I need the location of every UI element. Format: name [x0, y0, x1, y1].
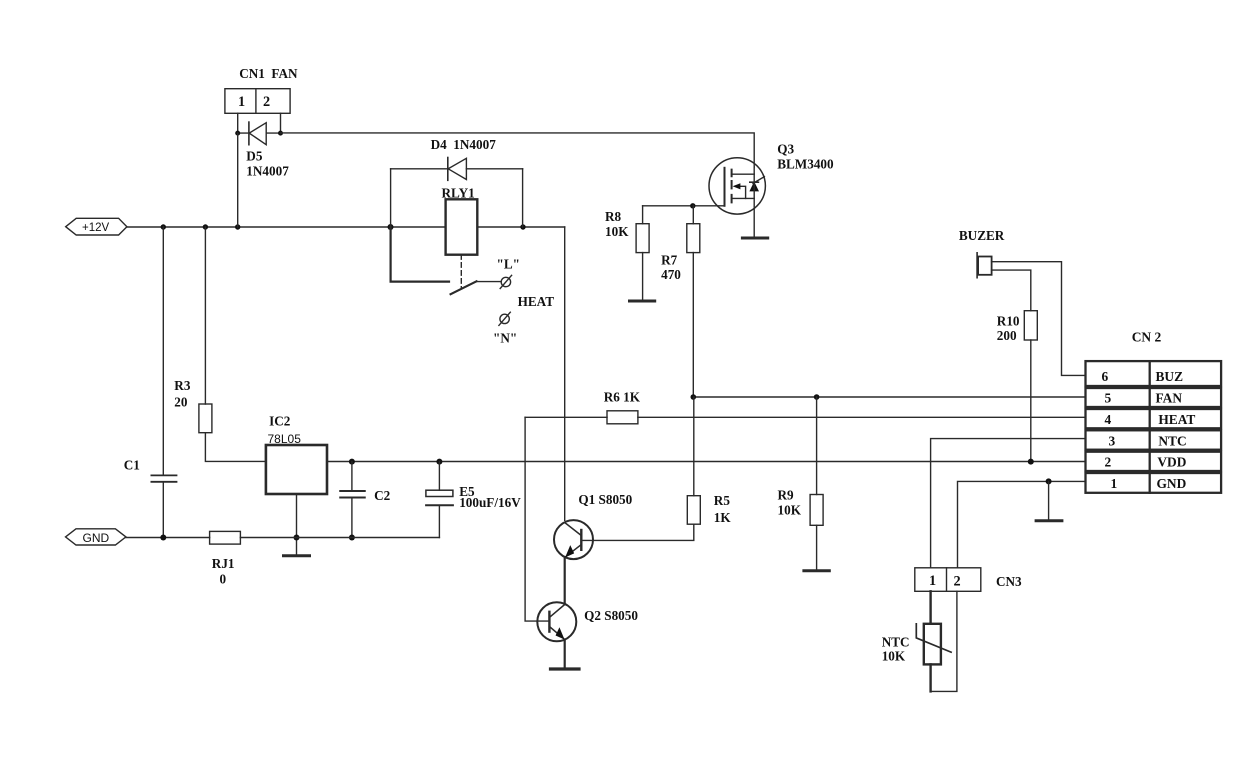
svg-text:R8: R8 — [605, 209, 622, 224]
svg-text:FAN: FAN — [1156, 391, 1183, 406]
ground CN2 GND — [1036, 519, 1062, 522]
svg-text:D4 1N4007: D4 1N4007 — [431, 137, 497, 152]
svg-text:BLM3400: BLM3400 — [777, 156, 834, 171]
svg-text:R6 1K: R6 1K — [604, 389, 641, 404]
svg-text:1: 1 — [238, 94, 245, 110]
wire buzzer bottom to R10 — [992, 270, 1031, 311]
svg-text:470: 470 — [661, 267, 681, 282]
transistor Q3 — [709, 141, 834, 214]
node junction R7/R5/FAN — [691, 394, 697, 400]
svg-text:78L05: 78L05 — [268, 432, 302, 446]
wire Q1 emitter to Q2 collector — [564, 559, 566, 603]
resistor R3 — [174, 227, 266, 461]
wire R8 to gate node — [643, 205, 725, 207]
ground R8 — [630, 300, 655, 303]
node junction C1/rail — [161, 224, 166, 229]
resistor R9 — [778, 397, 824, 570]
power tag GND — [66, 529, 126, 545]
relay RLY1 — [442, 185, 478, 288]
svg-text:Q1 S8050: Q1 S8050 — [578, 492, 632, 507]
svg-text:VDD: VDD — [1157, 455, 1186, 470]
node junction R3/rail — [203, 224, 208, 229]
svg-text:GND: GND — [83, 531, 110, 545]
svg-text:10K: 10K — [778, 502, 802, 517]
capacitor E5 — [426, 462, 521, 538]
diode D4 — [391, 137, 523, 181]
svg-text:2: 2 — [954, 573, 961, 589]
wire blade to L terminal — [477, 281, 502, 283]
svg-text:GND: GND — [1157, 476, 1187, 491]
wire CN1 pin2 to D5 cathode-net — [280, 113, 282, 133]
node junction GND-row/ground-stub — [1046, 478, 1052, 484]
ground Q2 — [551, 667, 580, 670]
svg-text:1: 1 — [929, 573, 936, 589]
svg-text:200: 200 — [997, 328, 1017, 343]
node junction relay-right/rail — [520, 224, 525, 229]
svg-text:100uF/16V: 100uF/16V — [459, 495, 521, 510]
node junction relay-left/rail — [388, 224, 394, 230]
connector CN1 — [225, 66, 298, 114]
svg-text:R7: R7 — [661, 253, 678, 268]
svg-text:R3: R3 — [174, 378, 191, 393]
node junction E5/VDD — [436, 459, 442, 465]
capacitor C1 — [124, 227, 177, 538]
diode D5 — [238, 122, 289, 178]
svg-text:HEAT: HEAT — [518, 294, 555, 309]
svg-text:Q3: Q3 — [777, 141, 794, 156]
svg-text:R9: R9 — [778, 487, 795, 502]
node junction D5/rail — [235, 224, 240, 229]
svg-text:20: 20 — [174, 394, 188, 409]
svg-text:3: 3 — [1109, 433, 1116, 448]
resistor R5 — [581, 397, 731, 540]
wire Q2 emitter to ground — [564, 641, 566, 668]
svg-text:C1: C1 — [124, 458, 140, 473]
svg-text:Q2 S8050: Q2 S8050 — [584, 608, 638, 623]
svg-text:0: 0 — [220, 571, 227, 586]
svg-text:2: 2 — [1105, 455, 1112, 470]
svg-text:NTC: NTC — [1158, 433, 1186, 448]
svg-text:RJ1: RJ1 — [212, 556, 235, 571]
node junction R10/VDD — [1028, 459, 1034, 465]
wire IC2 gnd pin — [296, 494, 298, 555]
resistor R10 — [997, 311, 1038, 462]
wire D4 right leg — [522, 169, 524, 227]
switch blade HEAT contact — [451, 281, 477, 294]
wire GND line — [126, 537, 440, 539]
svg-text:CN3: CN3 — [996, 574, 1022, 589]
svg-text:1K: 1K — [714, 510, 732, 525]
svg-text:CN 2: CN 2 — [1132, 330, 1162, 345]
svg-text:BUZER: BUZER — [959, 228, 1005, 243]
wire ground stub below GND row — [1048, 481, 1050, 519]
node junction R9/FAN — [814, 394, 820, 400]
power tag +12V — [66, 218, 127, 235]
resistor R6 — [525, 389, 1085, 424]
node junction C1/GND-line — [160, 535, 166, 541]
svg-text:1N4007: 1N4007 — [246, 163, 289, 178]
thermistor NTC — [882, 591, 957, 691]
wire buzzer top to CN2 BUZ row6 — [992, 262, 1086, 376]
resistor RJ1 — [210, 531, 241, 586]
terminal circle L — [497, 256, 520, 288]
svg-text:D5: D5 — [246, 149, 263, 164]
node junction D5 anode — [235, 131, 240, 136]
svg-text:6: 6 — [1102, 369, 1109, 384]
svg-text:2: 2 — [263, 94, 270, 110]
wire D4 left leg — [390, 169, 392, 227]
node junction IC2-gnd/GND-line — [294, 535, 300, 541]
ground Q3 — [742, 237, 767, 240]
svg-text:R5: R5 — [714, 493, 731, 508]
regulator IC2 — [266, 413, 327, 494]
transistor Q1 — [554, 492, 633, 559]
wire VDD net from IC2 output to CN2 — [327, 461, 1086, 463]
svg-text:10K: 10K — [605, 224, 629, 239]
wire NTC net row3 to CN3 pin1 — [931, 439, 1086, 568]
connector CN2 — [1086, 361, 1222, 493]
svg-text:+12V: +12V — [82, 222, 110, 234]
capacitor C2 — [340, 462, 390, 538]
wire +12V rail — [127, 226, 565, 228]
terminal circle N — [493, 312, 517, 345]
svg-text:10K: 10K — [882, 648, 906, 663]
wire relay common thick leg — [391, 227, 449, 282]
svg-text:C2: C2 — [374, 488, 391, 503]
resistor R7 — [661, 206, 700, 397]
svg-text:RLY1: RLY1 — [442, 185, 475, 200]
svg-text:IC2: IC2 — [269, 413, 291, 428]
ground IC2 — [284, 554, 310, 557]
svg-text:"N": "N" — [493, 330, 517, 345]
svg-text:4: 4 — [1105, 412, 1112, 427]
svg-text:NTC: NTC — [882, 635, 910, 650]
connector CN3 — [915, 568, 1022, 592]
ground R9 — [804, 569, 829, 572]
svg-text:BUZ: BUZ — [1156, 369, 1184, 384]
node junction C2/GND-line — [349, 535, 355, 541]
node junction gate/R7/R8 — [690, 203, 695, 208]
wire FAN net row5 — [693, 396, 1085, 398]
node junction D5 cathode — [278, 131, 283, 136]
svg-text:5: 5 — [1105, 391, 1112, 406]
wire R6 left leg to Q2 base — [525, 417, 549, 621]
wire GND net row1 to CN3 pin2 — [958, 481, 1086, 567]
svg-text:HEAT: HEAT — [1158, 412, 1195, 427]
wire Q3 source to ground — [753, 167, 755, 238]
node junction C2/VDD — [349, 459, 355, 465]
resistor R8 — [605, 206, 649, 300]
svg-text:1: 1 — [1111, 476, 1118, 491]
buzzer BUZER — [959, 228, 1005, 278]
wire top net D5 to Q3 drain — [281, 133, 755, 167]
svg-text:CN1 FAN: CN1 FAN — [239, 66, 298, 81]
svg-text:"L": "L" — [497, 256, 520, 271]
wire relay right to Q1 collector column — [564, 227, 566, 520]
wire CN1 pin1 to D5 anode — [237, 113, 239, 133]
transistor Q2 — [537, 602, 638, 641]
svg-text:R10: R10 — [997, 313, 1020, 328]
wire D5 anode down to rail — [237, 133, 239, 227]
